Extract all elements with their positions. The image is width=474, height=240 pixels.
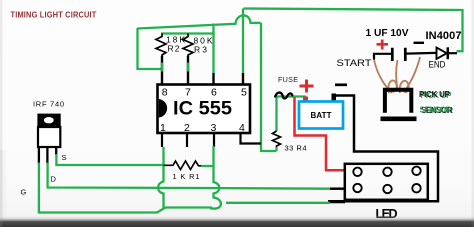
transistor Q1 IRF740 tab <box>37 114 60 127</box>
wire pin2 stub <box>186 134 188 147</box>
capacitor minus <box>414 42 425 44</box>
wire pin8 lead <box>161 56 163 84</box>
diode D1 <box>437 48 447 59</box>
wire red power to LED <box>295 97 347 170</box>
capacitor right lead <box>407 52 437 55</box>
wire pin4 elbow <box>241 134 262 144</box>
fuse F1 <box>275 93 293 99</box>
battery plus symbol <box>300 80 314 93</box>
wire node V1 vertical with hop <box>158 147 163 209</box>
wire pin1 stub <box>161 134 163 147</box>
svg-text:5: 5 <box>241 87 247 99</box>
wire pin5 black stub <box>242 73 244 84</box>
svg-text:FUSE: FUSE <box>278 75 298 84</box>
svg-text:END: END <box>429 60 446 70</box>
resistor R3 <box>183 34 193 63</box>
wire node V2 vertical with hops <box>210 146 221 209</box>
svg-text:6: 6 <box>211 87 217 99</box>
svg-text:BATT: BATT <box>311 111 332 120</box>
IC notch <box>159 99 167 118</box>
wire left rail drop to pin8 <box>138 28 163 69</box>
wire VCC top horizontal <box>244 9 463 52</box>
resistor R1 <box>164 161 202 170</box>
battery BATT box <box>299 102 343 129</box>
svg-text:SENSOR: SENSOR <box>420 105 452 115</box>
transistor legs <box>39 147 56 164</box>
svg-text:G: G <box>21 188 27 197</box>
op-amp U1 IC 555 body <box>158 85 251 134</box>
pickup coil brown strands <box>374 57 420 93</box>
capacitor plus <box>377 40 389 50</box>
resistor R2 <box>156 34 166 63</box>
wire source to R1 node <box>56 154 163 165</box>
wire second rail with hop over pin5 <box>138 15 261 28</box>
wire R1 right green lead <box>201 165 214 167</box>
svg-text:IC 555: IC 555 <box>173 99 232 120</box>
wire pin4 rail vertical <box>261 23 277 151</box>
capacitor plates <box>392 48 405 61</box>
wire battery minus to LED (black) <box>328 96 438 202</box>
diode bar <box>447 47 450 59</box>
pickup sensor box <box>385 90 411 113</box>
wire pin5 vertical <box>242 9 244 75</box>
diode right lead <box>448 52 457 54</box>
resistor R4 <box>273 131 281 147</box>
pickup sensor base bar <box>381 117 417 122</box>
svg-text:8: 8 <box>162 87 168 99</box>
svg-text:S: S <box>62 153 67 162</box>
wire pin6 sub-rail <box>161 24 214 75</box>
wire drain black end into LED <box>330 187 346 190</box>
LED holes top row <box>353 167 420 194</box>
svg-text:1 K R1: 1 K R1 <box>173 172 200 181</box>
bottom vignette <box>0 150 8 227</box>
battery minus symbol <box>335 83 347 86</box>
wire pin7 lead <box>187 56 189 84</box>
svg-text:1: 1 <box>160 122 166 134</box>
svg-text:3: 3 <box>211 122 217 134</box>
svg-text:TIMING LIGHT CIRCUIT: TIMING LIGHT CIRCUIT <box>11 10 98 20</box>
wire gate ground line <box>39 163 212 213</box>
wire gate line right part <box>226 202 330 204</box>
svg-text:START: START <box>337 58 373 68</box>
svg-text:D: D <box>51 175 57 184</box>
svg-text:IRF 740: IRF 740 <box>33 100 64 109</box>
LED box <box>345 164 428 200</box>
svg-text:4: 4 <box>239 122 245 134</box>
battery minus terminal <box>332 94 337 103</box>
capacitor C1 left lead <box>374 54 391 60</box>
svg-text:PICK UP: PICK UP <box>419 90 451 99</box>
wire pin3 stub <box>213 134 215 147</box>
wire drain line <box>48 163 330 189</box>
svg-text:1 UF 10V: 1 UF 10V <box>366 27 409 39</box>
svg-text:IN4007: IN4007 <box>426 30 462 42</box>
svg-text:7: 7 <box>185 87 191 99</box>
svg-text:2: 2 <box>184 122 190 134</box>
wire gate black end <box>330 201 345 204</box>
transistor body <box>38 127 60 147</box>
wire pin6 black stub <box>212 73 214 84</box>
svg-text:R2: R2 <box>168 44 180 54</box>
svg-text:33 R4: 33 R4 <box>285 144 307 153</box>
wire fuse line <box>277 97 307 132</box>
battery plus terminal <box>303 97 308 103</box>
wire R4 bottom <box>275 147 277 151</box>
